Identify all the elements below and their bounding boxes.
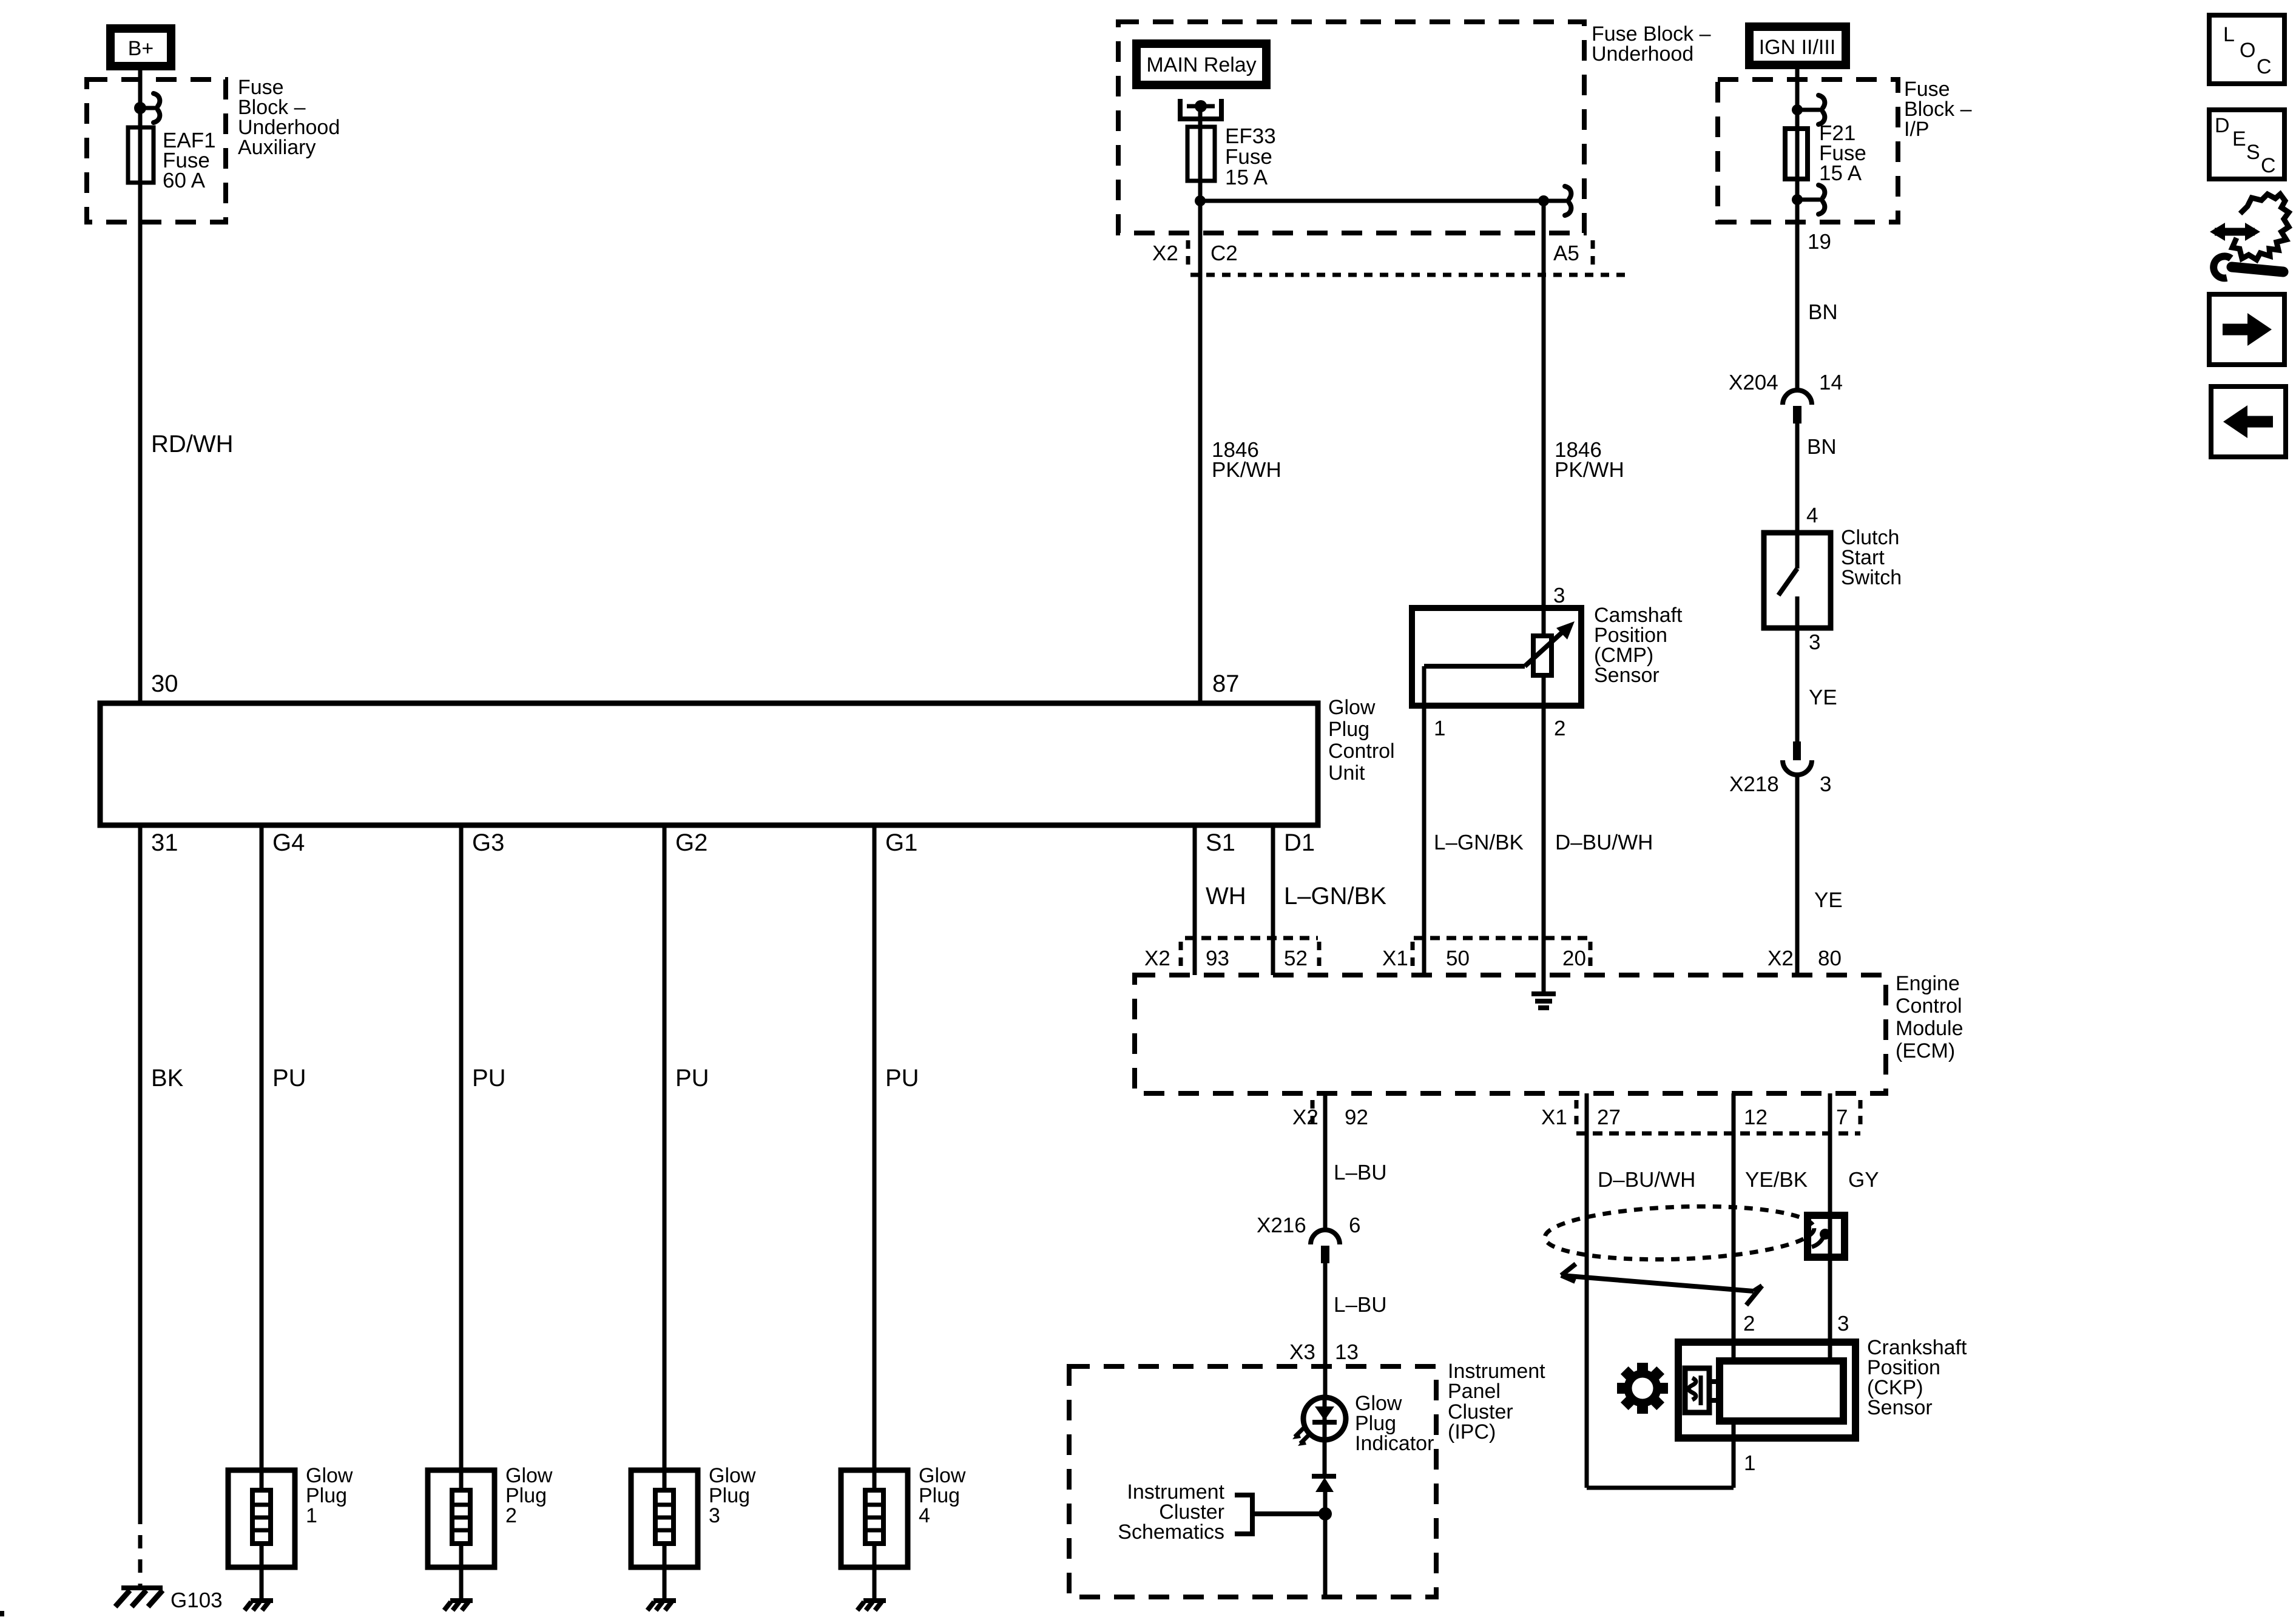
svg-text:Module: Module — [1896, 1017, 1963, 1040]
label glow plug 1 — [306, 1464, 353, 1527]
twisted leads annotation arrow — [1561, 1264, 1762, 1305]
label glow plug 4 — [919, 1464, 966, 1527]
connector strip X2 C2 A5 — [1152, 240, 1625, 275]
svg-text:52: 52 — [1284, 947, 1308, 970]
svg-text:3: 3 — [1553, 584, 1565, 607]
wire ECM 27 D-BU/WH — [1585, 1093, 1589, 1488]
label glow plug 3 — [709, 1464, 756, 1527]
svg-text:PU: PU — [885, 1065, 919, 1092]
svg-text:E: E — [2232, 127, 2246, 150]
svg-text:YE: YE — [1809, 686, 1837, 709]
ground inside ECM at pin 20 — [1531, 994, 1556, 1008]
wire diode to IPC bottom — [1323, 1492, 1328, 1597]
svg-text:G3: G3 — [472, 829, 504, 856]
ECM top connector X2 93 52 — [1144, 938, 1319, 970]
svg-text:IGN II/III: IGN II/III — [1759, 36, 1836, 59]
glow plug control unit box — [100, 703, 1318, 825]
svg-text:L–GN/BK: L–GN/BK — [1284, 883, 1386, 910]
wire C2 label 1846 PK/WH — [1212, 438, 1281, 482]
relay MAIN Relay title box — [1136, 44, 1266, 85]
svg-text:B+: B+ — [128, 37, 154, 60]
icon DESC box — [2209, 110, 2284, 179]
svg-text:1: 1 — [1744, 1451, 1755, 1475]
label instrument panel cluster IPC — [1448, 1360, 1545, 1443]
fuse block underhood auxiliary dashed box — [87, 79, 226, 222]
svg-text:(ECM): (ECM) — [1896, 1039, 1955, 1062]
svg-text:L–BU: L–BU — [1334, 1161, 1387, 1184]
svg-text:A5: A5 — [1553, 241, 1579, 265]
wire A5 to CMP sensor pin 3 — [1542, 201, 1546, 636]
svg-text:X2: X2 — [1152, 241, 1178, 265]
crankshaft position CKP sensor — [1678, 1342, 1855, 1438]
svg-text:PU: PU — [675, 1065, 709, 1092]
svg-text:3: 3 — [1809, 630, 1820, 654]
pin labels 2 3 CKP — [1743, 1312, 1849, 1335]
svg-text:14: 14 — [1819, 371, 1843, 394]
svg-text:87: 87 — [1212, 670, 1240, 697]
svg-text:BN: BN — [1808, 300, 1838, 324]
svg-text:50: 50 — [1446, 947, 1470, 970]
svg-text:BN: BN — [1807, 435, 1837, 459]
relay contact bracket — [1180, 99, 1221, 119]
wire CKP pin 1 — [1587, 1421, 1734, 1488]
wire ECM 7 GY — [1828, 1093, 1832, 1361]
pin labels 31 G4 G3 G2 G1 S1 D1 — [151, 829, 1315, 856]
wire labels WH and L-GN/BK at S1 D1 — [1206, 883, 1386, 910]
bracket instrument cluster schematics — [1235, 1495, 1255, 1534]
label EF33 fuse 15A — [1225, 124, 1276, 189]
svg-text:2: 2 — [1554, 717, 1565, 740]
fuse F21 15A — [1785, 129, 1808, 179]
ECM top connector X2 80 — [1768, 947, 1842, 970]
svg-text:X2: X2 — [1292, 1106, 1319, 1129]
svg-text:D: D — [2215, 114, 2230, 137]
icon wrench with arrow — [2210, 194, 2289, 278]
svg-text:Underhood: Underhood — [1592, 42, 1693, 66]
svg-text:YE: YE — [1814, 888, 1843, 912]
svg-text:G1: G1 — [885, 829, 917, 856]
svg-text:Glow: Glow — [1328, 696, 1376, 719]
fuse block underhood dashed box — [1118, 22, 1584, 233]
junction dot A5 — [1538, 195, 1549, 206]
label clutch start switch — [1841, 526, 1902, 589]
label F21 fuse 15A — [1819, 121, 1866, 185]
svg-text:D–BU/WH: D–BU/WH — [1555, 831, 1653, 854]
svg-text:X1: X1 — [1541, 1106, 1567, 1129]
svg-text:(IPC): (IPC) — [1448, 1420, 1496, 1443]
svg-text:X3: X3 — [1289, 1340, 1315, 1364]
ECM top connector X1 50 20 — [1382, 938, 1590, 970]
svg-text:1: 1 — [306, 1504, 317, 1527]
svg-text:Control: Control — [1328, 740, 1395, 763]
svg-text:Indicator: Indicator — [1355, 1432, 1434, 1455]
wire glow plug 3 to ground — [663, 1544, 667, 1599]
svg-text:2: 2 — [505, 1504, 517, 1527]
clutch start switch — [1764, 533, 1831, 628]
svg-text:Plug: Plug — [1328, 718, 1369, 741]
svg-text:BK: BK — [151, 1065, 184, 1092]
svg-text:Panel: Panel — [1448, 1380, 1501, 1403]
clip symbol at A5 — [1544, 186, 1571, 215]
wire B+ to glow plug control unit pin 30 — [138, 70, 143, 703]
svg-text:G103: G103 — [171, 1588, 223, 1612]
inline connector X204 — [1729, 371, 1843, 424]
wire D1 to ECM 52 — [1271, 825, 1275, 975]
wire labels D-BU/WH YE/BK GY — [1598, 1168, 1879, 1192]
svg-text:C: C — [2257, 55, 2272, 78]
junction dot EAF1 feed — [134, 102, 146, 114]
wire G3 to glow plug 2 — [459, 825, 464, 1490]
svg-text:Sensor: Sensor — [1594, 664, 1660, 687]
wire X218 to ECM 80 — [1795, 775, 1800, 975]
svg-text:I/P: I/P — [1904, 118, 1930, 141]
instrument panel cluster IPC dashed box — [1069, 1366, 1436, 1597]
svg-text:PU: PU — [272, 1065, 306, 1092]
clip symbol below F21 — [1797, 185, 1825, 214]
label engine control module ECM — [1896, 972, 1963, 1062]
svg-text:D1: D1 — [1284, 829, 1315, 856]
engine control module ECM dashed box — [1135, 975, 1886, 1093]
ground under glow plug 3 — [647, 1601, 676, 1610]
svg-text:Schematics: Schematics — [1118, 1521, 1224, 1544]
svg-text:GY: GY — [1848, 1168, 1879, 1192]
wire glow plug 1 to ground — [260, 1544, 264, 1599]
icon back arrow box — [2211, 387, 2286, 457]
junction dot below F21 — [1792, 194, 1803, 205]
svg-text:60 A: 60 A — [163, 169, 206, 192]
svg-text:X2: X2 — [1144, 947, 1170, 970]
svg-text:2: 2 — [1743, 1312, 1755, 1335]
svg-text:12: 12 — [1744, 1106, 1768, 1129]
wire glow plug 2 to ground — [459, 1544, 464, 1599]
label fuse block underhood — [1592, 22, 1711, 66]
wire relay to pin 87 — [1198, 106, 1203, 703]
glow plug 1 — [228, 1470, 295, 1567]
wire clutch to X218 — [1795, 628, 1800, 741]
svg-text:19: 19 — [1808, 230, 1831, 254]
wire CMP pin 1 to ECM 50 — [1422, 666, 1427, 975]
svg-text:80: 80 — [1818, 947, 1842, 970]
svg-text:Auxiliary: Auxiliary — [238, 136, 316, 159]
svg-text:S1: S1 — [1206, 829, 1235, 856]
twisted leads dashed ellipse — [1544, 1202, 1815, 1263]
svg-text:Switch: Switch — [1841, 566, 1902, 589]
svg-text:Engine: Engine — [1896, 972, 1960, 995]
fuse block I/P dashed box — [1718, 79, 1898, 222]
svg-text:L–BU: L–BU — [1334, 1293, 1387, 1317]
wire G4 to glow plug 1 — [260, 825, 264, 1490]
inline connector X216 — [1257, 1214, 1360, 1263]
ECM bottom connector X2 92 — [1292, 1100, 1368, 1129]
label camshaft position CMP sensor — [1594, 604, 1683, 687]
ground G103 — [115, 1588, 163, 1607]
wire X204 to clutch switch — [1795, 424, 1800, 569]
ground under glow plug 4 — [857, 1601, 886, 1610]
label glow plug control unit — [1328, 696, 1395, 785]
svg-text:L–GN/BK: L–GN/BK — [1434, 831, 1524, 854]
wire pin 31 to G103 (solid then dashed) — [138, 825, 143, 1511]
icon LOC box — [2209, 15, 2284, 84]
svg-text:3: 3 — [1837, 1312, 1849, 1335]
label crankshaft position CKP sensor — [1867, 1336, 1967, 1419]
wire ECM 12 YE/BK — [1732, 1093, 1736, 1361]
label fuse block I/P — [1904, 78, 1972, 141]
svg-text:YE/BK: YE/BK — [1745, 1168, 1808, 1192]
glow plug 2 — [428, 1470, 495, 1567]
svg-text:31: 31 — [151, 829, 178, 856]
svg-text:C2: C2 — [1210, 241, 1238, 265]
svg-text:Unit: Unit — [1328, 761, 1365, 785]
junction dot below EF33 — [1195, 195, 1206, 206]
page artifact dot bottom-left — [0, 1611, 4, 1616]
svg-text:MAIN Relay: MAIN Relay — [1146, 53, 1256, 76]
diode in IPC — [1312, 1476, 1336, 1492]
svg-text:15 A: 15 A — [1819, 161, 1862, 185]
glow plug indicator LED — [1292, 1397, 1346, 1474]
wire S1 to ECM 93 — [1193, 825, 1197, 975]
svg-text:4: 4 — [919, 1504, 930, 1527]
svg-text:C: C — [2261, 154, 2276, 177]
svg-text:1: 1 — [1434, 717, 1445, 740]
wire X216 to IPC X3 13 — [1323, 1263, 1328, 1397]
svg-text:RD/WH: RD/WH — [151, 431, 234, 457]
svg-text:X216: X216 — [1257, 1214, 1306, 1237]
fuse EF33 15A — [1187, 127, 1215, 181]
camshaft position CMP sensor — [1412, 608, 1581, 706]
label glow plug 2 — [505, 1464, 553, 1527]
gear reluctor symbol — [1617, 1363, 1668, 1414]
svg-text:G2: G2 — [675, 829, 707, 856]
svg-text:PU: PU — [472, 1065, 506, 1092]
svg-text:S: S — [2246, 141, 2260, 164]
icon forward arrow box — [2209, 294, 2284, 365]
svg-text:D–BU/WH: D–BU/WH — [1598, 1168, 1695, 1192]
inline connector X218 — [1729, 741, 1831, 796]
label EAF1 fuse 60A — [163, 129, 216, 192]
ECM bottom connector X1 27 12 7 — [1541, 1100, 1860, 1133]
svg-text:X2: X2 — [1768, 947, 1794, 970]
svg-text:Control: Control — [1896, 994, 1962, 1018]
svg-text:O: O — [2240, 39, 2255, 62]
wire ECM 92 to X216 (L-BU) — [1323, 1093, 1328, 1230]
wire G1 to glow plug 4 — [873, 825, 877, 1490]
svg-text:3: 3 — [1820, 772, 1831, 796]
glow plug 3 — [631, 1470, 698, 1567]
wire A5 label 1846 PK/WH — [1555, 438, 1624, 482]
wire EF33 to A5 — [1200, 199, 1544, 203]
label instrument cluster schematics — [1118, 1480, 1224, 1544]
svg-text:6: 6 — [1349, 1214, 1360, 1237]
ground under glow plug 2 — [444, 1601, 473, 1610]
wire to instrument cluster schematics bracket — [1254, 1511, 1325, 1516]
connector labels X3 13 — [1289, 1340, 1359, 1364]
wire labels BK PU PU PU PU — [151, 1065, 919, 1092]
junction dot instrument cluster tap — [1319, 1507, 1332, 1521]
svg-text:G4: G4 — [272, 829, 305, 856]
wire glow plug 4 to ground — [873, 1544, 877, 1599]
svg-text:27: 27 — [1597, 1106, 1621, 1129]
pin labels 1 and 2 CMP — [1434, 717, 1565, 740]
wire G2 to glow plug 3 — [663, 825, 667, 1490]
svg-text:13: 13 — [1335, 1340, 1359, 1364]
svg-text:Sensor: Sensor — [1867, 1396, 1933, 1419]
power symbol IGN II/III — [1749, 27, 1846, 65]
svg-text:WH: WH — [1206, 883, 1246, 910]
svg-text:20: 20 — [1562, 947, 1586, 970]
svg-text:15 A: 15 A — [1225, 166, 1268, 189]
svg-text:4: 4 — [1806, 504, 1818, 527]
svg-text:X1: X1 — [1382, 947, 1408, 970]
clip symbol at EAF1 feed — [140, 93, 160, 123]
fuse EAF1 60A — [128, 127, 154, 183]
junction dot above F21 — [1792, 104, 1803, 115]
power symbol B+ — [110, 29, 171, 66]
label fuse block underhood auxiliary — [238, 76, 340, 159]
svg-text:92: 92 — [1345, 1106, 1368, 1129]
wire IGN to clutch start switch — [1795, 69, 1800, 390]
label glow plug indicator — [1355, 1392, 1434, 1455]
svg-text:30: 30 — [151, 670, 178, 697]
wire CMP pin 2 to ECM 20 — [1542, 675, 1546, 991]
svg-text:X218: X218 — [1729, 772, 1779, 796]
svg-text:PK/WH: PK/WH — [1212, 458, 1281, 482]
ground under glow plug 1 — [245, 1601, 273, 1610]
glow plug 4 — [841, 1470, 908, 1567]
shield drain connector on GY wire — [1808, 1215, 1845, 1257]
svg-text:7: 7 — [1836, 1106, 1848, 1129]
svg-text:L: L — [2223, 23, 2235, 46]
svg-text:3: 3 — [709, 1504, 720, 1527]
svg-text:PK/WH: PK/WH — [1555, 458, 1624, 482]
svg-text:X204: X204 — [1729, 371, 1778, 394]
clip symbol above F21 — [1797, 95, 1825, 124]
svg-text:93: 93 — [1206, 947, 1229, 970]
